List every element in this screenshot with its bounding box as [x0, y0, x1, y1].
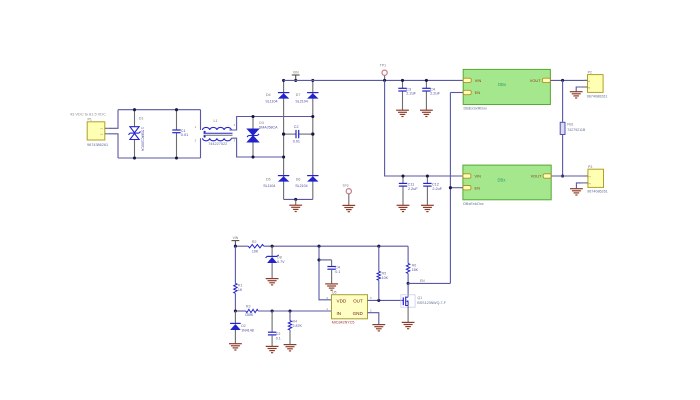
connector P3 [582, 169, 604, 187]
svg-text:1K: 1K [238, 288, 243, 292]
svg-text:43 VDC to 81.5 VDC: 43 VDC to 81.5 VDC [70, 112, 106, 117]
junction left leg AC bottom [282, 155, 285, 158]
capacitor C4 lead top [425, 80, 427, 88]
svg-text:U5: U5 [332, 290, 337, 294]
ground D2 [229, 344, 242, 350]
junction EN net [449, 186, 452, 189]
ground C12 [421, 205, 434, 211]
junction VIN corner [234, 245, 237, 248]
test point TP2 [346, 189, 351, 194]
resistor R5 10K [377, 271, 380, 280]
capacitor C3 lead top [402, 80, 404, 88]
svg-text:MIC842NYC5: MIC842NYC5 [332, 320, 355, 324]
resistor R1 1K [234, 283, 237, 293]
capacitor C4 (0.1) lead top [331, 260, 333, 267]
wire primary bottom rail [118, 157, 201, 159]
wire VOUT2 to P3 [551, 175, 588, 177]
capacitor C1 lead bottom [176, 133, 178, 158]
ground C4 [420, 110, 433, 116]
junction C1 bottom [175, 156, 178, 159]
svg-text:D5: D5 [266, 177, 271, 181]
svg-text:P2: P2 [588, 70, 592, 74]
junction D1 bottom [133, 156, 136, 159]
diode D3 lead bottom [252, 142, 254, 157]
diode D4 SL1104 [278, 93, 289, 99]
junction TP1 [383, 79, 386, 82]
junction D7 cathode [311, 79, 314, 82]
svg-text:VIN: VIN [475, 78, 482, 83]
capacitor C2 (AC) lead left [284, 133, 296, 135]
junction C3 [401, 79, 404, 82]
resistor R4 2.87K [288, 321, 291, 330]
svg-text:D8: D8 [277, 256, 282, 260]
capacitor C3 lead bottom [402, 91, 404, 110]
wire L1 pin4 to AC top node [229, 117, 312, 131]
capacitor C4 [422, 88, 430, 91]
resistor R6 15K [406, 263, 409, 273]
svg-text:C4: C4 [335, 265, 340, 269]
junction D8 [271, 245, 274, 248]
connector P2 [582, 75, 604, 93]
svg-text:9674386261: 9674386261 [87, 143, 108, 147]
junction D3 top [251, 115, 254, 118]
junction VOUT2 [561, 174, 564, 177]
junction divider node [234, 309, 237, 312]
junction R5 bottom [377, 299, 380, 302]
wire VIN to R2 [235, 245, 248, 247]
diode D7 SL2104 [307, 93, 318, 99]
svg-text:R1: R1 [238, 284, 243, 288]
junction VDD branch [317, 245, 320, 248]
resistor R2 10K [248, 245, 263, 248]
svg-text:R4: R4 [293, 320, 298, 324]
junction D1 top [133, 108, 136, 111]
svg-text:P1: P1 [88, 118, 92, 122]
R4 lead bottom [289, 330, 291, 345]
regulator module U4 DBE box [463, 165, 551, 200]
ground C4b [325, 284, 338, 290]
connector P1 [87, 122, 108, 140]
svg-text:EN: EN [475, 185, 481, 190]
wire bridge right leg [312, 80, 314, 199]
svg-text:6.7V: 6.7V [277, 260, 285, 264]
junction C2 left [282, 133, 285, 136]
wire R3 to IN pin [258, 310, 331, 312]
svg-text:SMAJ58CA: SMAJ58CA [259, 126, 278, 130]
wire R5 to OUT node [378, 280, 380, 300]
wire DC+ top rail [284, 79, 464, 81]
svg-text:D1: D1 [139, 117, 144, 121]
ground C3 [396, 110, 409, 116]
wire rail to R5 [378, 246, 380, 271]
ground TP2 [342, 205, 355, 211]
svg-text:BSS123NWQ-7-F: BSS123NWQ-7-F [417, 301, 446, 305]
svg-text:VIN: VIN [233, 236, 239, 240]
svg-text:2.87K: 2.87K [293, 324, 303, 328]
svg-text:GND: GND [353, 311, 364, 316]
supervisor U5 MIC842 box [332, 295, 368, 319]
ferrite bead FB1 [560, 122, 565, 134]
zener diode D8 6.7V [266, 255, 279, 263]
svg-text:DBxExbOxx: DBxExbOxx [463, 202, 484, 206]
svg-text:EN: EN [420, 279, 425, 283]
junction bridge ground [294, 198, 297, 201]
svg-text:OUT: OUT [353, 299, 363, 304]
resistor R3 150K [246, 309, 258, 312]
svg-text:2.2uF: 2.2uF [406, 92, 416, 96]
wire EN vertical net [449, 93, 451, 284]
capacitor C4 0.1 [327, 267, 335, 270]
ground bridge [289, 205, 302, 211]
wire drain to EN net [408, 282, 450, 284]
power flag VIN [292, 74, 300, 76]
svg-text:9674086261: 9674086261 [587, 94, 608, 98]
svg-text:0.1: 0.1 [335, 270, 340, 274]
svg-text:DBExSxRDxx: DBExSxRDxx [464, 106, 488, 110]
wire bridge bottom rail [284, 198, 313, 200]
svg-text:0.01: 0.01 [181, 133, 188, 137]
svg-text:EN: EN [475, 90, 481, 95]
svg-text:10K: 10K [382, 276, 389, 280]
wire R1 to divider node [234, 293, 236, 311]
diode D3 lead top [252, 117, 254, 130]
svg-text:C2: C2 [294, 125, 299, 129]
svg-text:VOUT: VOUT [531, 174, 542, 179]
zener D8 lead bottom [271, 263, 273, 279]
wire P3 pin2 to ground [576, 183, 582, 189]
ground R4 [284, 345, 297, 351]
svg-text:SL2104: SL2104 [295, 100, 307, 104]
junction right leg AC top [311, 115, 314, 118]
junction R4 [288, 309, 291, 312]
capacitor C4 (0.1) lead bottom [331, 269, 333, 284]
svg-text:2.2uF: 2.2uF [408, 187, 418, 191]
ground P2 [570, 92, 583, 98]
svg-text:2.2uF: 2.2uF [432, 187, 442, 191]
capacitor C1 lead top [176, 110, 178, 130]
wire drain into Q1 [407, 283, 409, 296]
wire node to R4 [289, 311, 291, 321]
power flag VIN [232, 240, 240, 242]
svg-text:2.2uF: 2.2uF [430, 92, 440, 96]
wire to capacitor C4b [319, 259, 332, 261]
wire VOUT1 to P2 [550, 79, 587, 81]
wire P1 pin2 to bottom rail [108, 134, 118, 158]
svg-text:R6: R6 [412, 263, 417, 267]
TVS diode D3 SMAJ58CA [247, 129, 259, 142]
svg-text:VDD: VDD [337, 299, 347, 304]
regulator module U3 DBE box [463, 69, 550, 104]
svg-text:1N4148: 1N4148 [241, 329, 254, 333]
test point TP2 stem [348, 194, 350, 206]
svg-text:15K: 15K [412, 268, 419, 272]
svg-text:DBx: DBx [498, 178, 507, 183]
capacitor C11 lead top [402, 176, 404, 183]
diode D5 SL1104 [278, 176, 289, 182]
capacitor C2 0.1 [268, 332, 276, 335]
svg-text:VIN: VIN [293, 70, 299, 74]
svg-text:L1: L1 [214, 119, 218, 123]
wire GND pin to ground [368, 313, 379, 325]
ground Q1 [402, 322, 415, 328]
svg-text:150K: 150K [245, 313, 254, 317]
capacitor C2 lead top [271, 311, 273, 332]
junction R5 top [377, 245, 380, 248]
svg-text:DBx: DBx [498, 82, 507, 87]
wire VIN to R1 [234, 246, 236, 283]
diode D6 SL2104 [307, 176, 318, 182]
wire node to R3 [235, 310, 245, 312]
junction C11 [401, 174, 404, 177]
power flag VIN stem [295, 75, 297, 80]
svg-text:D3: D3 [259, 121, 264, 125]
ground P3 [570, 189, 583, 195]
svg-text:IN: IN [337, 311, 342, 316]
svg-text:74279211B: 74279211B [567, 128, 586, 132]
svg-text:R3: R3 [246, 304, 251, 308]
svg-text:9674086261: 9674086261 [587, 189, 608, 193]
ground U5 [372, 325, 385, 331]
junction VIN flag [294, 79, 297, 82]
junction drain/EN [407, 282, 410, 285]
capacitor C3 [398, 88, 406, 91]
junction C12 [426, 174, 429, 177]
svg-text:TP2: TP2 [342, 184, 348, 188]
junction C2 right [311, 133, 314, 136]
test point TP1 [382, 70, 387, 75]
junction VOUT1 [561, 79, 564, 82]
wire VDD branch [319, 246, 332, 300]
capacitor C12 lead top [426, 176, 428, 183]
ground C11 [397, 205, 410, 211]
wire bridge left leg [283, 80, 285, 199]
capacitor C2 (AC) lead right [299, 133, 313, 135]
ground D8 [266, 279, 279, 285]
svg-text:D6: D6 [296, 177, 301, 181]
capacitor C2 lead bottom [271, 335, 273, 347]
wire top rail to L1 pin1 [200, 110, 202, 130]
svg-text:SL2104: SL2104 [295, 184, 307, 188]
svg-text:D4: D4 [266, 93, 271, 97]
Q1 source lead [407, 306, 409, 323]
wire primary top rail [118, 109, 201, 111]
junction D3 bottom [251, 155, 254, 158]
svg-text:D7: D7 [296, 93, 301, 97]
svg-text:0.01: 0.01 [293, 140, 300, 144]
junction left leg AC [282, 133, 285, 136]
svg-text:SL1104: SL1104 [263, 184, 275, 188]
svg-text:1.5SMC100CA: 1.5SMC100CA [141, 127, 145, 152]
svg-text:P3: P3 [588, 165, 592, 169]
zener D8 lead top [271, 246, 273, 256]
junction C1 top [175, 108, 178, 111]
svg-text:VOUT: VOUT [530, 78, 541, 83]
svg-text:10K: 10K [252, 249, 259, 253]
diode D1 lead bottom [134, 140, 136, 159]
wire rail to R6 [407, 246, 409, 263]
diode D1 lead top [134, 110, 136, 127]
capacitor C11 [399, 183, 407, 186]
junction C2 filter [271, 309, 274, 312]
wire bottom rail to L1 pin2 [200, 138, 202, 158]
junction C4 branch [317, 258, 320, 261]
transistor Q1 BSS123NWQ-7-F [401, 295, 415, 307]
capacitor C2 (AC) [296, 130, 299, 138]
capacitor C4 lead bottom [425, 91, 427, 110]
svg-text:Q1: Q1 [417, 296, 422, 300]
diode D2 1N4148 [230, 323, 241, 330]
wire module1 EN [450, 92, 463, 94]
svg-text:C2: C2 [276, 332, 281, 336]
ferrite bead FB1 lead bottom [562, 135, 564, 177]
capacitor C1 [172, 130, 180, 133]
wire VIN down to second rail [385, 80, 463, 176]
inductor L1 common-mode choke 744227522 [203, 127, 233, 140]
wire module2 EN [450, 187, 463, 189]
svg-text:R5: R5 [382, 271, 387, 275]
junction right leg AC [311, 133, 314, 136]
wire P2 pin2 to ground [576, 87, 581, 92]
power flag VIN2 stem [234, 241, 236, 247]
capacitor C11 lead bottom [402, 186, 404, 205]
wire R6 to drain node [407, 273, 409, 283]
svg-text:744227522: 744227522 [208, 142, 227, 146]
junction C4 [425, 79, 428, 82]
junction D4 cathode [282, 79, 285, 82]
svg-text:FB1: FB1 [567, 123, 573, 127]
svg-text:D2: D2 [241, 324, 246, 328]
diode D2 lead bottom [234, 330, 236, 344]
wire OUT to gate [368, 299, 402, 301]
wire P1 pin1 to top rail [108, 110, 118, 129]
capacitor C12 [423, 183, 431, 186]
svg-text:0.1: 0.1 [276, 337, 281, 341]
ground C2 [266, 346, 279, 352]
svg-text:TP1: TP1 [380, 64, 386, 68]
svg-text:SL1104: SL1104 [265, 100, 277, 104]
diode D2 lead top [234, 311, 236, 323]
wire L1 pin3 to AC bottom node [231, 138, 283, 157]
bridge ground stem [295, 199, 297, 205]
svg-text:R2: R2 [252, 240, 257, 244]
svg-text:VIN: VIN [475, 174, 482, 179]
ferrite bead FB1 lead top [562, 80, 564, 122]
test point TP1 stem [384, 75, 386, 80]
TVS diode D1 [129, 127, 141, 140]
wire R2 to top node rail [264, 245, 408, 247]
capacitor C12 lead bottom [426, 186, 428, 205]
